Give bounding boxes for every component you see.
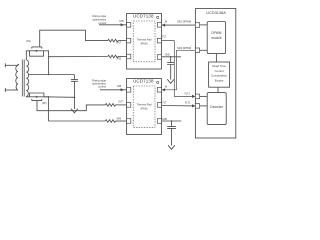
op-amp U2 driver UCD7138 bottom [127, 79, 162, 135]
wire pin SR2 to DPWM [200, 49, 208, 51]
node junction U1 gnd cap [170, 56, 172, 58]
pin FLT1 on UCD3138A [195, 94, 199, 99]
svg-text:IN: IN [165, 87, 168, 89]
arrow into FLT2 [192, 104, 195, 107]
capacitor C1 output [71, 75, 78, 98]
resistor R4 sense [105, 120, 115, 123]
svg-text:GND: GND [165, 54, 170, 56]
node junction bottom rail [74, 97, 76, 99]
svg-text:UCD7138: UCD7138 [133, 78, 154, 83]
svg-text:SR2 DPWM: SR2 DPWM [177, 46, 191, 50]
svg-text:Engine: Engine [215, 78, 224, 82]
resistor R1 gate [108, 39, 118, 42]
arrow into U2 IN [162, 88, 165, 91]
wire primary bottom lead [5, 89, 18, 91]
wire SR1 DPWM [162, 24, 196, 26]
label U2 thermal pad [137, 103, 152, 111]
svg-text:(PAD): (PAD) [141, 41, 148, 45]
capacitor C3 [167, 57, 174, 65]
svg-text:module: module [211, 36, 222, 40]
arrow into FLT1 [192, 95, 195, 98]
pin SR1 on UCD3138A [195, 23, 199, 28]
svg-text:UCD3138A: UCD3138A [206, 10, 226, 15]
wire Q2 gate loop [37, 101, 105, 111]
wire LPB U2 with arrow [100, 89, 127, 91]
wire center tap [28, 74, 74, 76]
pin FLT2 on UCD3138A [195, 104, 199, 109]
svg-text:DPWM: DPWM [211, 31, 221, 35]
wire pin SR1 to DPWM [200, 24, 208, 26]
op-amp U1 driver UCD7138 top [127, 14, 162, 70]
wire SR2 DPWM [162, 50, 196, 90]
wire R4 to SRS pin [116, 120, 127, 122]
DPWM module box [207, 22, 225, 54]
wire Q1 gate loop [40, 30, 108, 47]
transistor Q2 bottom sync FET [30, 93, 44, 101]
svg-text:OUT: OUT [117, 42, 122, 44]
svg-text:Thermal Pad: Thermal Pad [137, 38, 152, 42]
svg-text:Dead Time: Dead Time [212, 64, 226, 68]
transformer T1 secondary winding [26, 60, 28, 97]
wire pin FLT2 to Decoder [200, 105, 208, 107]
wire DPWM to DeadTime [215, 54, 217, 62]
wire sense SRS1 [49, 56, 108, 58]
svg-text:(R1): (R1) [26, 41, 31, 43]
node junction Q1 drain sense [48, 56, 49, 57]
wire R2 to SRS pin [118, 56, 127, 58]
node junction Q2 drain [48, 96, 49, 97]
wire U1 GND [162, 56, 182, 58]
Dead time control box [209, 62, 230, 87]
svg-text:control: control [98, 21, 106, 25]
svg-text:UCD7138: UCD7138 [133, 13, 154, 18]
capacitor C4 [167, 121, 176, 128]
ground arrow A [71, 97, 78, 113]
wire R1 to OUT pin [118, 40, 127, 42]
wire U1 FLT to FLT1 [162, 41, 196, 97]
wire pin FLT1 to Decoder [200, 95, 208, 97]
wire secondary top lead up [26, 51, 29, 60]
arrow into U1 IN [162, 24, 165, 27]
wire LPB U1 with arrow [99, 24, 127, 26]
wire U2 FLT to FLT2 [162, 105, 196, 107]
svg-text:Decoder: Decoder [210, 105, 224, 109]
svg-text:SRS: SRS [116, 118, 121, 120]
wire DeadTime to Decoder [217, 87, 219, 92]
svg-text:SRS: SRS [116, 58, 121, 60]
svg-text:Control: Control [215, 69, 224, 73]
svg-text:FLT: FLT [163, 102, 168, 104]
annotation rising edge control U1 [92, 14, 106, 25]
resistor R3 gate [105, 104, 115, 107]
wire primary top lead [5, 64, 18, 66]
Decoder box [207, 93, 226, 125]
wire bottom rail [44, 96, 75, 99]
svg-text:(R2): (R2) [42, 103, 47, 105]
primary terminal stub top [4, 63, 6, 67]
svg-text:FLT2: FLT2 [185, 103, 191, 105]
node junction U2 gnd cap [171, 120, 173, 122]
wire R3 to OUT pin [116, 104, 127, 106]
svg-text:IN: IN [165, 22, 168, 24]
svg-text:SR1 DPWM: SR1 DPWM [177, 20, 191, 24]
pin SR2 on UCD3138A [195, 48, 199, 53]
transformer T1 primary winding [16, 65, 18, 90]
svg-text:FLT1: FLT1 [185, 93, 191, 95]
wire secondary bottom lead [26, 96, 29, 98]
annotation rising edge control U2 [92, 79, 106, 89]
svg-text:optimization: optimization [92, 17, 106, 21]
svg-text:Rising edge: Rising edge [92, 14, 106, 18]
svg-text:control: control [98, 84, 106, 88]
svg-text:Computation: Computation [211, 74, 227, 78]
svg-text:FLT: FLT [162, 37, 167, 39]
transformer T1 polarity dot [18, 64, 20, 66]
svg-text:GND: GND [162, 119, 167, 121]
label U1 thermal pad [137, 38, 152, 46]
ground arrow B [167, 65, 174, 84]
primary terminal stub bottom [4, 88, 6, 92]
node junction center tap [48, 74, 49, 75]
transistor Q1 top sync FET [30, 47, 44, 56]
transformer T1 core [22, 60, 24, 97]
resistor R2 sense [108, 55, 118, 58]
ground arrow C [168, 128, 175, 149]
controller UCD3138A outer box [195, 9, 235, 139]
svg-text:OUT: OUT [118, 101, 123, 103]
wire Q2 drain jog down [44, 97, 49, 121]
svg-text:Thermal Pad: Thermal Pad [137, 103, 152, 107]
wire U2 GND [162, 120, 182, 122]
svg-text:(PAD): (PAD) [141, 106, 148, 110]
wire sense SRS2 [48, 120, 105, 122]
wire Q1 drain jog down [44, 51, 49, 75]
svg-text:LPB: LPB [117, 86, 122, 88]
svg-text:LPB: LPB [119, 21, 124, 23]
